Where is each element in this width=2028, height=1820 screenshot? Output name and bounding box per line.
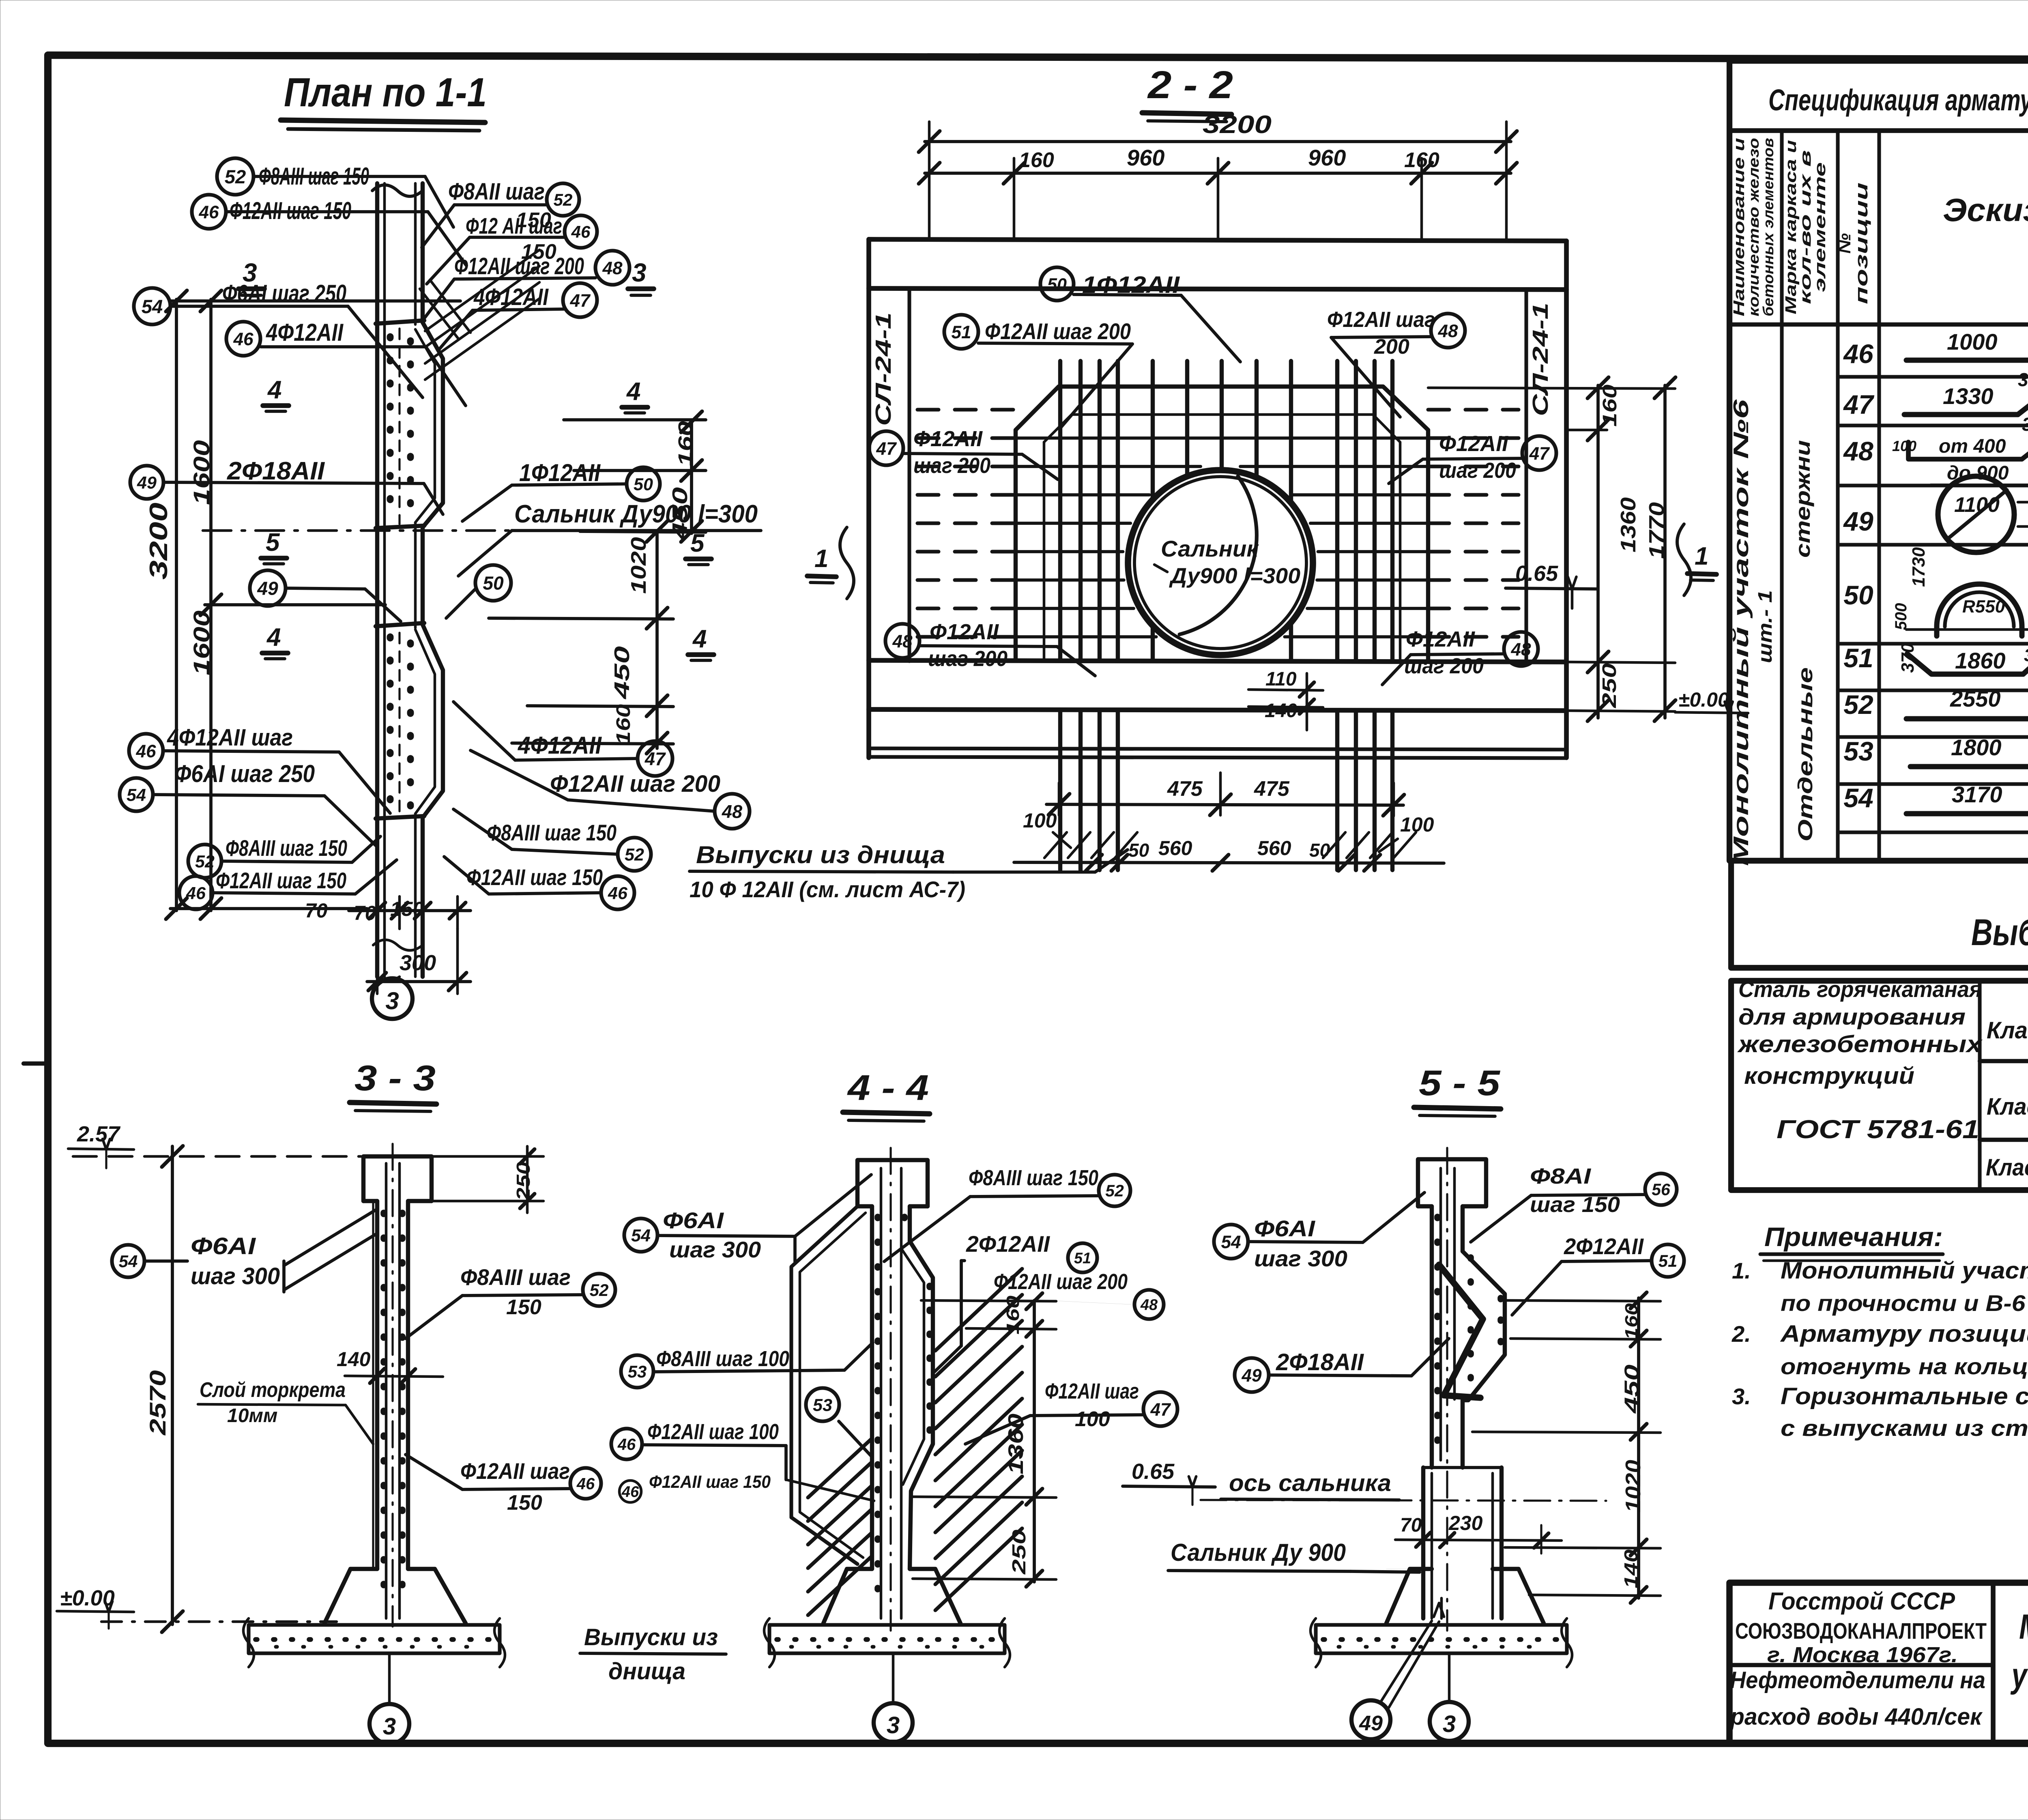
svg-text:49: 49 bbox=[257, 578, 278, 599]
plan wall top break mark bbox=[372, 185, 423, 196]
5-5 bottom circled 49 bbox=[1351, 1700, 1390, 1739]
svg-text:70: 70 bbox=[1400, 1515, 1422, 1536]
salnik crescent arc bbox=[1179, 476, 1257, 634]
plan lower joint end plates bbox=[376, 623, 424, 626]
svg-text:46: 46 bbox=[608, 884, 628, 903]
svg-text:52: 52 bbox=[1843, 690, 1873, 720]
svg-text:140: 140 bbox=[1265, 700, 1297, 722]
callout 51 left bbox=[944, 315, 978, 349]
svg-text:150: 150 bbox=[390, 898, 424, 920]
title block outer box bbox=[1729, 1583, 2028, 1743]
svg-text:2550: 2550 bbox=[1950, 686, 2001, 711]
3-3 slab aggregate dots bbox=[256, 1637, 495, 1642]
svg-text:49: 49 bbox=[1843, 506, 1873, 536]
svg-text:3200: 3200 bbox=[145, 503, 173, 580]
5-5 pocket rebar dots bbox=[1497, 1298, 1504, 1355]
svg-text:2.57: 2.57 bbox=[77, 1122, 121, 1146]
svg-text:R550: R550 bbox=[1962, 597, 2005, 617]
svg-text:1330: 1330 bbox=[1943, 383, 1994, 409]
salnik circle inner bbox=[1134, 477, 1306, 649]
3-3 cap block bbox=[363, 1156, 432, 1201]
5-5 slab break marks bbox=[1310, 1618, 1321, 1667]
svg-text:с выпусками из стеновых панел: с выпусками из стеновых панелей. bbox=[1781, 1415, 2028, 1441]
svg-text:1860: 1860 bbox=[1955, 648, 2006, 673]
svg-text:4: 4 bbox=[267, 376, 281, 404]
callout 52 in 4-4 bbox=[1099, 1175, 1130, 1206]
svg-text:1: 1 bbox=[1695, 542, 1708, 570]
svg-text:Арматуру позиции №53 и 54 у: Арматуру позиции №53 и 54 у сальника обр… bbox=[1780, 1321, 2028, 1347]
2-2 right dim chain outer 1770 bbox=[1663, 385, 1667, 718]
4-4 wall centerline bbox=[889, 1148, 892, 1631]
plan right dim chain upper bbox=[690, 420, 693, 533]
4-4 wall rebar dots bbox=[874, 1217, 881, 1602]
svg-text:шаг 300: шаг 300 bbox=[191, 1263, 280, 1289]
2-2 break squiggle left bbox=[840, 527, 854, 599]
svg-text:Монолитный участок выполнять: Монолитный участок выполнять из бетона м… bbox=[1781, 1257, 2028, 1284]
5-5 slab aggregate dots bbox=[1323, 1637, 1560, 1642]
svg-text:4 - 4: 4 - 4 bbox=[847, 1068, 929, 1108]
callout 46 upper right bbox=[565, 215, 597, 248]
2-2 bottom dim 50 560 560 50 bbox=[1014, 862, 1444, 863]
5-5 wall rebar dots bbox=[1434, 1217, 1441, 1452]
svg-text:Ф6АI шаг 250: Ф6АI шаг 250 bbox=[174, 760, 315, 787]
svg-text:2Ф18АII: 2Ф18АII bbox=[1276, 1349, 1364, 1375]
callout 49 left bbox=[130, 466, 163, 499]
2-2 bottom wall band bbox=[869, 660, 1566, 662]
5-5 anchor arrows at pipe bottom bbox=[1434, 1603, 1444, 1617]
svg-text:370: 370 bbox=[2024, 645, 2028, 665]
plan upper joint rebar dots left bbox=[387, 337, 394, 521]
svg-text:Ф12АII шаг: Ф12АII шаг bbox=[1327, 307, 1435, 332]
3-3 wall skin lines bbox=[385, 1163, 388, 1618]
svg-text:2.: 2. bbox=[1732, 1321, 1751, 1347]
svg-text:Горизонтальные стержни поз.: Горизонтальные стержни поз. №54 перевязы… bbox=[1781, 1383, 2028, 1410]
svg-text:10мм: 10мм bbox=[227, 1405, 277, 1427]
svg-text:150: 150 bbox=[507, 1491, 542, 1515]
svg-text:Ф12 АII шаг: Ф12 АII шаг bbox=[466, 213, 562, 239]
4-4 pocket rebar dots bbox=[926, 1286, 933, 1444]
4-4 pocket inner line bbox=[901, 1248, 924, 1485]
callout 53 left in 4-4 bbox=[621, 1355, 653, 1388]
svg-text:46: 46 bbox=[198, 202, 219, 222]
callout 48 lower right bbox=[1504, 632, 1538, 666]
svg-text:Ф12АII шаг: Ф12АII шаг bbox=[1045, 1379, 1139, 1403]
svg-text:51: 51 bbox=[1843, 643, 1873, 673]
svg-text:Выпуски из: Выпуски из bbox=[584, 1624, 718, 1650]
svg-text:370: 370 bbox=[1898, 643, 1918, 673]
plan dim extension bottom bbox=[170, 907, 367, 910]
svg-text:3: 3 bbox=[1443, 1711, 1456, 1737]
svg-text:140: 140 bbox=[1620, 1549, 1641, 1588]
svg-text:0.65: 0.65 bbox=[1132, 1459, 1175, 1484]
2-2 mesh horizontal dashed extensions left bbox=[917, 408, 1016, 411]
svg-text:Ф12АII шаг 150: Ф12АII шаг 150 bbox=[649, 1472, 771, 1492]
2-2 dim segments line bbox=[925, 172, 1511, 175]
4-4 slab aggregate dots bbox=[777, 1637, 998, 1642]
svg-text:350: 350 bbox=[2022, 414, 2028, 435]
callout 46b connector in 4-4 bbox=[786, 1480, 874, 1501]
svg-text:46: 46 bbox=[617, 1435, 636, 1453]
svg-text:Ф12АII: Ф12АII bbox=[1439, 432, 1508, 456]
svg-text:шт.- 1: шт.- 1 bbox=[1755, 590, 1776, 663]
plan wall bottom break mark bbox=[373, 940, 423, 950]
callout 52 upper left bbox=[217, 158, 253, 195]
svg-text:46: 46 bbox=[135, 741, 156, 761]
plan left dim line 3200 bbox=[175, 299, 178, 911]
svg-text:250: 250 bbox=[1008, 1529, 1029, 1575]
svg-text:1Ф12АII: 1Ф12АII bbox=[519, 459, 601, 486]
svg-text:Выборка арматуры: Выборка арматуры bbox=[1971, 912, 2028, 953]
svg-text:4: 4 bbox=[692, 625, 707, 653]
callout 47 left bbox=[869, 431, 903, 465]
plan upper joint inner verticals bbox=[398, 329, 400, 524]
svg-text:1020: 1020 bbox=[627, 537, 651, 594]
4-4 dim 160 extensions bbox=[921, 1300, 1056, 1301]
svg-text:для армирования: для армирования bbox=[1738, 1004, 1966, 1029]
callout 53 on wall in 4-4 bbox=[806, 1388, 839, 1421]
svg-text:4Ф12АII: 4Ф12АII bbox=[518, 732, 602, 759]
2-2 dowel bars below right bbox=[1335, 711, 1339, 870]
2-2 left wall verticals bbox=[866, 239, 871, 758]
svg-text:2 - 2: 2 - 2 bbox=[1147, 63, 1233, 107]
row 51 sketch: trapezoid bar 370-1860-370 bbox=[1907, 651, 2028, 674]
svg-text:54: 54 bbox=[119, 1252, 138, 1271]
callout 52 upper right bbox=[547, 183, 579, 216]
svg-text:3.: 3. bbox=[1732, 1384, 1751, 1409]
svg-text:4Ф12АII шаг: 4Ф12АII шаг bbox=[167, 724, 293, 751]
svg-text:51: 51 bbox=[951, 322, 971, 342]
callout 46 lowest right bbox=[601, 876, 634, 909]
salnik circle outer bbox=[1128, 470, 1313, 655]
svg-text:70: 70 bbox=[305, 899, 328, 922]
svg-text:350: 350 bbox=[2018, 369, 2028, 390]
svg-text:1100: 1100 bbox=[1954, 493, 2000, 517]
svg-text:52: 52 bbox=[590, 1281, 609, 1300]
5-5 bottom circled 3 bbox=[1430, 1702, 1469, 1741]
svg-text:шаг 300: шаг 300 bbox=[1254, 1246, 1347, 1271]
svg-text:160: 160 bbox=[1622, 1303, 1641, 1340]
2-2 vertical bars left group bbox=[1058, 361, 1062, 660]
spec table row lines bbox=[1838, 375, 2028, 378]
callout 47 right bbox=[1522, 436, 1556, 470]
4-4 hatch diagonals lower left bbox=[808, 1439, 871, 1498]
svg-text:Ф8АI: Ф8АI bbox=[1530, 1164, 1591, 1188]
svg-text:50: 50 bbox=[1843, 580, 1873, 610]
callout 48 upper right bbox=[595, 251, 629, 285]
3-3 bottom circled 3 bbox=[370, 1704, 409, 1744]
2-2 right dim chain inner bbox=[1596, 385, 1600, 718]
callout 49 mid bbox=[250, 570, 286, 606]
callout 46 lower left bbox=[129, 734, 163, 768]
svg-text:53: 53 bbox=[1843, 736, 1873, 766]
svg-text:Ф12АII шаг 200: Ф12АII шаг 200 bbox=[550, 771, 720, 797]
4-4 hatch diagonals right of pocket bbox=[935, 1269, 1022, 1351]
plan strip middle segment right edge bbox=[421, 527, 425, 625]
svg-text:Ф12АII шаг 150: Ф12АII шаг 150 bbox=[216, 868, 346, 893]
2-2 mesh square outline bbox=[1016, 387, 1428, 660]
2-2 dowel hatch marks left bbox=[1044, 832, 1067, 858]
3-3 footing left trapezoid bbox=[324, 1569, 377, 1623]
svg-text:шаг 200: шаг 200 bbox=[1404, 654, 1484, 678]
svg-text:49: 49 bbox=[1359, 1712, 1383, 1735]
row 48 sketch: bar ot 400 do 900 with hooks bbox=[1908, 442, 2022, 459]
title block left row divider bbox=[1729, 1663, 1993, 1667]
svg-text:0.65: 0.65 bbox=[1515, 561, 1558, 586]
4-4 right dim chain bbox=[1033, 1300, 1036, 1582]
svg-text:Ф8АIII шаг 150: Ф8АIII шаг 150 bbox=[969, 1166, 1098, 1190]
svg-text:150: 150 bbox=[506, 1296, 541, 1319]
3-3 wall rebar dots bbox=[380, 1213, 387, 1602]
5-5 joint pocket right bbox=[1463, 1251, 1505, 1468]
callout 54 in 5-5 bbox=[1214, 1225, 1248, 1259]
4-4 slab break marks bbox=[764, 1618, 775, 1667]
callout 47 in 4-4 bbox=[1143, 1392, 1177, 1426]
5-5 wall centerline bbox=[1446, 1148, 1448, 1631]
svg-text:1600: 1600 bbox=[189, 440, 214, 505]
svg-text:46: 46 bbox=[571, 222, 591, 241]
svg-text:2Ф12АII: 2Ф12АII bbox=[966, 1231, 1050, 1257]
svg-text:Ф12АII: Ф12АII bbox=[930, 620, 999, 644]
svg-text:48: 48 bbox=[1843, 436, 1873, 466]
3-3 torkret layer line bbox=[372, 1201, 374, 1569]
svg-text:шаг 200: шаг 200 bbox=[913, 453, 990, 478]
2-2 break squiggle right bbox=[1677, 524, 1691, 595]
svg-text:Ф12АII: Ф12АII bbox=[913, 427, 983, 451]
svg-text:Ф12АII шаг 200: Ф12АII шаг 200 bbox=[985, 318, 1131, 344]
svg-text:1770: 1770 bbox=[1645, 502, 1669, 559]
svg-text:53: 53 bbox=[813, 1396, 832, 1415]
svg-text:51: 51 bbox=[1074, 1250, 1091, 1267]
2-2 bottom dim 475 475 bbox=[1046, 804, 1403, 805]
plan axis line of salnik bbox=[203, 529, 706, 532]
svg-text:расход воды 440л/сек: расход воды 440л/сек bbox=[1729, 1704, 1983, 1730]
svg-text:70: 70 bbox=[354, 902, 376, 924]
svg-text:48: 48 bbox=[1140, 1297, 1158, 1314]
svg-text:10 Ф 12АII (см. лист АС-7): 10 Ф 12АII (см. лист АС-7) bbox=[690, 877, 965, 902]
5-5 wall skin lines bbox=[1439, 1168, 1442, 1460]
svg-text:52: 52 bbox=[554, 190, 573, 209]
callout 50 mid bbox=[475, 565, 511, 601]
plan left dim line 1600 segments bbox=[209, 299, 213, 911]
svg-text:50: 50 bbox=[483, 573, 504, 594]
svg-text:54: 54 bbox=[1221, 1232, 1241, 1252]
svg-text:Ф6АI шаг 250: Ф6АI шаг 250 bbox=[222, 280, 346, 307]
svg-text:47: 47 bbox=[1150, 1400, 1171, 1420]
svg-text:46: 46 bbox=[576, 1475, 595, 1493]
svg-text:47: 47 bbox=[876, 439, 897, 459]
svg-text:1360: 1360 bbox=[1004, 1414, 1028, 1474]
svg-text:Ф12АII шаг 100: Ф12АII шаг 100 bbox=[647, 1420, 779, 1444]
plan bottom circled 3 bbox=[372, 978, 412, 1019]
svg-text:53: 53 bbox=[628, 1362, 647, 1381]
svg-text:160: 160 bbox=[1019, 148, 1054, 172]
svg-text:56: 56 bbox=[1652, 1180, 1670, 1199]
svg-text:ось сальника: ось сальника bbox=[1229, 1470, 1391, 1496]
2-2 mesh horizontal bars clipped at circle bbox=[1016, 436, 1428, 440]
3-3 right dim 250 at cap bbox=[526, 1146, 529, 1213]
svg-text:Эскиз: Эскиз bbox=[1943, 192, 2028, 228]
plan right dim chain lower bbox=[655, 531, 659, 748]
svg-text:±0.00: ±0.00 bbox=[1678, 688, 1729, 711]
plan dim extension mid bbox=[205, 603, 385, 606]
svg-text:4: 4 bbox=[266, 623, 281, 651]
svg-text:47: 47 bbox=[569, 291, 591, 311]
svg-text:Монолитный участок №6: Монолитный участок №6 bbox=[1729, 399, 1753, 866]
4-4 left incline formwork bbox=[791, 1206, 857, 1564]
svg-text:100: 100 bbox=[1023, 809, 1057, 832]
callout 46 pair in 3-3 bbox=[570, 1468, 601, 1499]
plan upper joint rebar dots right bbox=[407, 341, 414, 519]
spec table vertical lines bbox=[1780, 131, 1783, 861]
svg-text:140: 140 bbox=[337, 1348, 371, 1371]
svg-text:Ф12АII шаг 200: Ф12АII шаг 200 bbox=[994, 1270, 1128, 1294]
callout 50 right bbox=[627, 467, 660, 501]
2-2 right dim extensions bbox=[1428, 388, 1675, 389]
svg-text:48: 48 bbox=[892, 632, 913, 651]
svg-text:160: 160 bbox=[1003, 1295, 1023, 1334]
callout 47 lower right bbox=[638, 741, 672, 776]
svg-text:250: 250 bbox=[1599, 663, 1620, 709]
plan upper joint pocket right edge bbox=[423, 322, 443, 527]
svg-text:1600: 1600 bbox=[189, 610, 214, 675]
callout 47 mid right bbox=[563, 283, 597, 317]
svg-text:100: 100 bbox=[1892, 438, 1916, 454]
svg-text:475: 475 bbox=[1254, 777, 1290, 801]
svg-text:Ду900 l=300: Ду900 l=300 bbox=[1169, 564, 1300, 588]
svg-text:Ф12АII: Ф12АII bbox=[1406, 627, 1475, 651]
3-3 wall centerline bbox=[391, 1144, 393, 1627]
svg-text:ГОСТ 5781-61: ГОСТ 5781-61 bbox=[1777, 1115, 1979, 1144]
svg-text:Ф12АII шаг 150: Ф12АII шаг 150 bbox=[466, 864, 603, 890]
callout 46 lowest left bbox=[179, 876, 213, 909]
callout 48 lower left bbox=[885, 624, 919, 658]
5-5 footing left trapezoid bbox=[1386, 1569, 1432, 1623]
row 49 sketch: ring d1100 bbox=[1938, 476, 2014, 552]
svg-text:48: 48 bbox=[1437, 321, 1458, 341]
svg-text:50: 50 bbox=[1309, 840, 1330, 861]
svg-text:Ф6АI: Ф6АI bbox=[663, 1208, 724, 1233]
2-2 mesh square inner outline bbox=[1044, 415, 1400, 660]
svg-text:стержни: стержни bbox=[1792, 440, 1814, 558]
4-4 bottom circled 3 bbox=[874, 1703, 913, 1742]
svg-text:Ф12АII шаг 200: Ф12АII шаг 200 bbox=[454, 253, 584, 279]
svg-text:4: 4 bbox=[626, 378, 640, 406]
svg-text:47: 47 bbox=[1843, 389, 1875, 419]
callout 52 in 3-3 bbox=[583, 1274, 615, 1306]
3-3 slab break marks bbox=[243, 1618, 254, 1667]
svg-text:100: 100 bbox=[1075, 1407, 1110, 1431]
svg-text:Отдельные: Отдельные bbox=[1794, 667, 1817, 842]
svg-text:Ф12АII шаг: Ф12АII шаг bbox=[460, 1458, 570, 1484]
svg-text:Нефтеотделители на: Нефтеотделители на bbox=[1730, 1667, 1985, 1693]
svg-text:4Ф12АII: 4Ф12АII bbox=[473, 284, 549, 310]
callout 48 lower right bbox=[715, 794, 750, 829]
svg-text:2570: 2570 bbox=[145, 1370, 170, 1435]
callout 54 in 3-3 bbox=[112, 1245, 144, 1277]
svg-text:48: 48 bbox=[1510, 640, 1531, 660]
svg-text:участок стены: участок стены bbox=[2010, 1656, 2028, 1695]
svg-text:230: 230 bbox=[1448, 1512, 1483, 1534]
svg-text:300: 300 bbox=[400, 951, 436, 975]
svg-text:Примечания:: Примечания: bbox=[1764, 1222, 1943, 1252]
plan bottom dim 300 bbox=[367, 980, 470, 983]
svg-text:54: 54 bbox=[631, 1226, 651, 1246]
svg-text:Сальник Ду 900: Сальник Ду 900 bbox=[1171, 1539, 1346, 1566]
svg-text:1000: 1000 bbox=[1947, 329, 1998, 355]
svg-text:51: 51 bbox=[1658, 1251, 1678, 1270]
title block vertical dividers bbox=[1991, 1583, 1996, 1743]
5-5 footing slab bbox=[1316, 1625, 1567, 1653]
5-5 cap block bbox=[1418, 1159, 1486, 1206]
2-2 mesh horizontal dashed extensions right bbox=[1428, 408, 1519, 411]
svg-text:КлассАIII: КлассАIII bbox=[1986, 1154, 2028, 1181]
plan leader hatch diagonals from left bbox=[430, 280, 470, 333]
callout 46 mid left bbox=[226, 322, 260, 356]
plan wall strip outer lines bbox=[375, 183, 379, 977]
svg-text:46: 46 bbox=[621, 1484, 639, 1501]
svg-text:конструкций: конструкций bbox=[1744, 1063, 1914, 1089]
svg-text:КлассАI: КлассАI bbox=[1987, 1017, 2028, 1044]
svg-text:Сальник Ду900 l=300: Сальник Ду900 l=300 bbox=[514, 500, 758, 528]
svg-text:Ф6АI: Ф6АI bbox=[191, 1233, 256, 1259]
vyborka armatury heading box bbox=[1731, 861, 2028, 968]
svg-text:шаг 300: шаг 300 bbox=[669, 1237, 761, 1262]
svg-text:Госстрой СССР: Госстрой СССР bbox=[1768, 1588, 1955, 1615]
svg-text:днища: днища bbox=[608, 1658, 685, 1685]
svg-text:Ф8АIII шаг: Ф8АIII шаг bbox=[460, 1264, 571, 1290]
2-2 vertical bars right group bbox=[1335, 361, 1339, 660]
svg-text:Монолитный: Монолитный bbox=[2019, 1607, 2028, 1646]
svg-text:50: 50 bbox=[634, 475, 653, 494]
svg-text:г. Москва 1967г.: г. Москва 1967г. bbox=[1767, 1643, 1958, 1667]
svg-text:49: 49 bbox=[137, 473, 157, 493]
3-3 top extension dashed line bbox=[73, 1155, 361, 1158]
5-5 salnik pipe bbox=[1421, 1468, 1425, 1618]
svg-text:по прочности и В-6 по водонеп: по прочности и В-6 по водонепроницаемост… bbox=[1781, 1290, 2028, 1316]
svg-text:350: 350 bbox=[2025, 501, 2028, 529]
left margin fold tick bbox=[24, 1061, 48, 1066]
svg-text:54: 54 bbox=[127, 786, 146, 805]
plan leader hatch diagonals upper right bbox=[425, 250, 539, 331]
svg-text:560: 560 bbox=[1158, 837, 1192, 860]
callout 51 in 4-4 bbox=[1068, 1243, 1097, 1272]
plan wall strip inner lines bbox=[383, 183, 386, 977]
row 47 sketch: bar 1330 with 350 hook bbox=[1904, 412, 2018, 417]
svg-text:План по 1-1: План по 1-1 bbox=[284, 70, 487, 115]
svg-text:3: 3 bbox=[887, 1712, 900, 1738]
4-4 wall skin lines bbox=[880, 1168, 883, 1618]
svg-text:160: 160 bbox=[675, 421, 696, 466]
callout 56 in 5-5 bbox=[1645, 1173, 1677, 1205]
svg-text:элементе: элементе bbox=[1812, 162, 1829, 292]
svg-text:5: 5 bbox=[266, 529, 280, 557]
svg-text:475: 475 bbox=[1167, 777, 1203, 801]
svg-text:50: 50 bbox=[1128, 840, 1149, 861]
svg-text:960: 960 bbox=[1127, 145, 1164, 170]
3-3 footing right trapezoid bbox=[408, 1569, 466, 1623]
svg-text:3 - 3: 3 - 3 bbox=[354, 1058, 436, 1098]
4-4 cap block bbox=[857, 1160, 928, 1206]
svg-text:54: 54 bbox=[142, 296, 163, 318]
4-4 wall outer lines bbox=[870, 1206, 874, 1569]
svg-text:100: 100 bbox=[1400, 813, 1434, 836]
svg-text:шаг 200: шаг 200 bbox=[928, 647, 1008, 671]
4-4 footing slab bbox=[769, 1625, 1005, 1653]
4-4 footing left trapezoid bbox=[823, 1569, 872, 1623]
row 53 sketch: bar 1800 bbox=[1910, 764, 2028, 769]
2-2 vertical bars middle group interrupted by circle bbox=[1151, 361, 1155, 500]
callout 49 in 5-5 bbox=[1235, 1358, 1269, 1392]
